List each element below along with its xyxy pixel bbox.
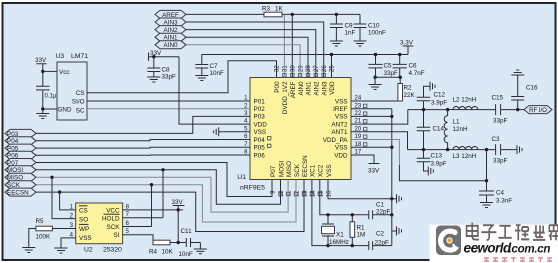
svg-text:VSS: VSS <box>79 235 92 242</box>
ground sideways at C3 <box>517 145 522 154</box>
svg-text:AIN3: AIN3 <box>321 81 328 95</box>
inductor L2 12nH <box>453 97 478 110</box>
svg-text:25: 25 <box>330 65 336 72</box>
svg-text:MISO: MISO <box>286 161 293 177</box>
wire U2 VSS to ground <box>61 238 76 248</box>
power 33V at pin17 <box>368 164 380 175</box>
svg-text:U3: U3 <box>56 53 65 60</box>
node pin22 junction <box>390 115 393 118</box>
svg-text:DVDD_1V2: DVDD_1V2 <box>282 81 289 114</box>
svg-text:Vcc: Vcc <box>59 69 70 76</box>
svg-text:C7: C7 <box>210 63 219 70</box>
svg-text:12nH: 12nH <box>453 126 469 133</box>
node C4 junction <box>485 179 488 182</box>
wire R5 left to ground <box>29 229 36 248</box>
port flag AIN2 <box>155 26 186 34</box>
node VSS bus junction <box>390 197 393 200</box>
svg-text:VDD_PA: VDD_PA <box>323 137 349 144</box>
node R1 bottom junction <box>351 244 354 247</box>
svg-text:RF I/O: RF I/O <box>529 108 547 114</box>
node ground line left <box>373 76 376 79</box>
wire U3 SC to U1 pin2 <box>87 108 250 110</box>
wire R2 top to ground line <box>399 77 401 83</box>
U1 right pin names VSS IREF VSS ANT2 ANT1 VDD_PA VSS VDD <box>323 98 349 159</box>
svg-text:10nF: 10nF <box>179 251 194 258</box>
ground below U3 cap <box>36 109 49 119</box>
svg-text:AIN2: AIN2 <box>314 81 321 95</box>
svg-text:VSS: VSS <box>326 164 333 177</box>
wire P05 to U1 pin7 <box>36 146 250 149</box>
svg-text:VDD: VDD <box>254 121 268 128</box>
svg-text:30: 30 <box>291 65 297 72</box>
wire U1 pin21 ANT2 up to RF line <box>351 110 408 125</box>
ground below node <box>369 77 382 89</box>
IC U3 LM71 body <box>56 53 89 120</box>
svg-text:33V: 33V <box>150 50 162 57</box>
wire P07 to U1 pin9 <box>36 163 272 197</box>
svg-text:27: 27 <box>314 65 320 72</box>
svg-text:33V: 33V <box>368 168 380 175</box>
wire U1 pin16 VSS to ground <box>328 180 392 199</box>
svg-text:VSS: VSS <box>335 145 348 152</box>
resistor R4 10K <box>149 240 174 255</box>
svg-text:WP: WP <box>79 226 89 233</box>
svg-text:R2: R2 <box>404 85 413 92</box>
wire SCK branch to U2 SCK <box>123 185 152 227</box>
node MOSI branch junction <box>161 168 164 171</box>
node C16 RF junction <box>516 108 519 111</box>
node R1 top junction <box>351 213 354 216</box>
wire P03 to U1 pin3 <box>36 116 250 133</box>
svg-text:10K: 10K <box>162 249 174 256</box>
crystal X1 16MHz <box>322 215 349 246</box>
wire U3 CS to P00 pin32 <box>87 61 277 93</box>
svg-text:16MHz: 16MHz <box>329 239 349 246</box>
wire vertical bus x391.8 <box>391 109 393 246</box>
watermark red tagline <box>484 258 552 262</box>
wire R5 to U2 WP <box>52 228 75 230</box>
node crystal top junction <box>326 213 329 216</box>
capacitor C9 1nF <box>330 14 356 41</box>
wire P06 to U1 pin8 <box>36 154 250 156</box>
power 33V at U2 VCC <box>172 199 185 210</box>
wire pin31 DVDD_1V2 drop <box>283 14 285 77</box>
wire U1 pin5 VSS stub <box>219 131 250 133</box>
svg-text:22pF: 22pF <box>376 209 391 216</box>
node ground line right <box>399 76 402 79</box>
wire AIN3 to pin26 <box>186 22 324 78</box>
watermark logo block <box>436 226 461 256</box>
svg-text:C3: C3 <box>492 136 501 143</box>
ground below C10 <box>354 41 367 46</box>
ground below C4 <box>480 203 493 208</box>
power 3.3V symbol <box>400 40 414 55</box>
node C8 junction <box>152 55 155 58</box>
port flag MISO <box>5 173 36 181</box>
wire U1 pin19 VDD_PA feed <box>351 140 399 167</box>
inductor L3 12nH <box>453 147 478 160</box>
node U3 GND junction <box>41 107 44 110</box>
ground sideways at VSS line <box>392 194 402 203</box>
resistor R1 1M <box>350 215 365 246</box>
svg-text:C4: C4 <box>496 190 505 197</box>
svg-text:R4: R4 <box>149 249 158 256</box>
svg-text:C5: C5 <box>384 62 393 69</box>
svg-text:VSS: VSS <box>254 129 267 136</box>
port flag AIN0 <box>155 41 186 49</box>
svg-text:AIN0: AIN0 <box>298 81 305 95</box>
U1 bottom pin names P07 MOSI MISO SCK EECSN XC1 XC2 VSS (rotated) <box>270 155 333 177</box>
node MISO branch junction <box>50 176 53 179</box>
wire EECSN to U1 pin13 <box>36 180 304 232</box>
node SCK branch junction <box>150 183 153 186</box>
capacitor C12 3.9pF <box>417 86 448 109</box>
node VDD_PA feed junction <box>485 148 488 151</box>
wire pin25 VDD drop <box>331 55 333 78</box>
svg-text:VSS: VSS <box>335 114 348 121</box>
port flag SCK <box>5 181 36 189</box>
svg-text:1K: 1K <box>275 6 284 13</box>
svg-text:3.9pF: 3.9pF <box>431 100 447 107</box>
svg-text:SI/O: SI/O <box>72 98 85 105</box>
svg-text:R3: R3 <box>262 6 271 13</box>
svg-text:P07: P07 <box>270 165 277 177</box>
U1 right pin numbers 24-17 with pad squares <box>355 96 367 156</box>
svg-text:C11: C11 <box>181 228 193 235</box>
svg-text:3.3nF: 3.3nF <box>496 198 512 205</box>
port flag AREF <box>155 10 186 18</box>
svg-text:25320: 25320 <box>103 247 122 254</box>
svg-text:SC: SC <box>76 108 85 115</box>
ground sideways at bus y231 <box>392 227 402 236</box>
wire U3 Vcc <box>43 70 57 72</box>
svg-text:P01: P01 <box>254 98 266 105</box>
wire U1 pin20 ANT1 down to RF bottom line <box>351 132 408 150</box>
svg-text:100K: 100K <box>36 234 52 241</box>
resistor R2 22K <box>398 84 416 102</box>
port flag P03 <box>5 129 36 137</box>
svg-text:SCK: SCK <box>107 224 121 231</box>
svg-text:.com.cn: .com.cn <box>509 243 551 256</box>
svg-text:C10: C10 <box>368 23 380 30</box>
port flag P06 <box>5 151 36 159</box>
wire SCK to U1 pin12 <box>36 180 296 223</box>
node VDD pin25 junction <box>330 53 333 56</box>
svg-text:AIN0: AIN0 <box>164 42 178 49</box>
capacitor C5 33pF <box>368 55 398 78</box>
capacitor C16 <box>511 75 538 110</box>
wire AIN2 to pin27 <box>186 30 316 78</box>
wire U1 pin18 VSS stub <box>351 146 392 148</box>
node C9 junction <box>335 13 338 16</box>
svg-text:33pF: 33pF <box>384 70 399 77</box>
svg-text:GND: GND <box>58 106 72 113</box>
capacitor C4 3.3nF <box>479 181 512 205</box>
watermark background <box>430 225 558 263</box>
svg-text:AIN1: AIN1 <box>306 81 313 95</box>
node L1 bottom junction <box>446 148 449 151</box>
svg-text:C8: C8 <box>162 67 171 74</box>
power 33V rail at C8 <box>149 50 180 61</box>
wire U2 VCC 33V <box>123 209 183 211</box>
svg-text:P06: P06 <box>254 152 266 159</box>
svg-text:P03: P03 <box>254 114 266 121</box>
node AREF pin30 junction <box>291 13 294 16</box>
svg-text:nRF9E5: nRF9E5 <box>240 185 265 192</box>
capacitor C2 22pF <box>369 231 392 251</box>
svg-text:22K: 22K <box>404 92 416 99</box>
node C5 rail junction <box>374 53 377 56</box>
svg-text:33pF: 33pF <box>493 158 508 165</box>
svg-text:VSS: VSS <box>335 98 348 105</box>
ground sideways at C12 <box>430 82 435 91</box>
svg-text:26: 26 <box>322 65 328 72</box>
capacitor 0.1u at U3 <box>36 71 57 109</box>
wire U2 SI to R4 <box>123 235 153 243</box>
wire AREF to R3 <box>186 13 264 15</box>
svg-text:EECSN: EECSN <box>7 190 29 197</box>
wire U1 pin17 VDD to 33V <box>351 155 374 164</box>
resistor R3 1K <box>262 6 284 17</box>
wire U1 pin23 IREF to vertical bus <box>351 108 392 110</box>
capacitor C13 3.9pF <box>417 150 447 171</box>
ground up at C16 <box>511 70 524 75</box>
svg-text:ee: ee <box>464 241 479 256</box>
wire U3 SI/O to U1 pin1 <box>87 100 250 102</box>
svg-text:IREF: IREF <box>333 106 347 113</box>
capacitor C6 4.7nF <box>393 55 425 78</box>
svg-text:U2: U2 <box>84 247 93 254</box>
wire ground line above R2 <box>375 76 400 78</box>
ground below C8 <box>147 77 160 82</box>
capacitor C15 33pF <box>492 95 525 125</box>
svg-text:C9: C9 <box>345 23 354 30</box>
node C12 C14 junction <box>422 108 425 111</box>
ground sideways at C13 <box>428 167 433 176</box>
svg-text:29: 29 <box>298 65 304 72</box>
op-chip U1 nRF9E5 body <box>237 78 351 192</box>
wire P04 to U1 pin6 <box>36 140 250 141</box>
port flag P05 <box>5 144 36 152</box>
capacitor C11 10nF <box>179 228 201 258</box>
svg-text:33pF: 33pF <box>162 74 177 81</box>
capacitor C3 33pF <box>492 136 518 165</box>
watermark CJK title strokes <box>467 223 558 240</box>
svg-text:SI: SI <box>114 232 120 239</box>
svg-text:0.1μ: 0.1μ <box>45 94 57 100</box>
watermark eeworld text <box>464 241 551 256</box>
U1 bottom pin numbers 9-16 (rotated) with pad squares <box>271 190 333 197</box>
svg-text:C16: C16 <box>526 85 538 92</box>
svg-text:HOLD: HOLD <box>102 215 120 222</box>
wire pin30 AREF drop <box>291 14 293 77</box>
svg-text:R1: R1 <box>357 225 366 232</box>
svg-text:P00: P00 <box>274 81 281 93</box>
svg-text:XC1: XC1 <box>310 164 317 177</box>
node pin18 junction <box>390 146 393 149</box>
capacitor C14 between RF lines <box>417 110 445 150</box>
node L1 top junction <box>446 108 449 111</box>
svg-text:32: 32 <box>275 65 281 72</box>
svg-text:C13: C13 <box>431 153 443 160</box>
svg-text:100nF: 100nF <box>368 30 386 37</box>
svg-text:EECSN: EECSN <box>302 155 309 177</box>
svg-text:U1: U1 <box>237 174 246 181</box>
wire AIN1 to pin28 <box>186 37 308 77</box>
ground below U2 VSS <box>55 248 68 253</box>
wire U1 pin22 VSS stub <box>351 115 392 117</box>
wire MOSI to U1 pin10 <box>36 170 281 205</box>
svg-text:31: 31 <box>283 65 289 72</box>
wire R4 to C11 node <box>170 242 186 244</box>
capacitor C8 33pF <box>147 57 176 81</box>
svg-text:28: 28 <box>306 65 312 72</box>
wire VCC pullup vertical <box>177 210 179 243</box>
svg-text:SCK: SCK <box>294 163 301 177</box>
svg-text:SO: SO <box>79 217 88 224</box>
node C6 rail junction <box>398 53 401 56</box>
capacitor C1 22pF <box>369 202 392 220</box>
svg-text:L2 12nH: L2 12nH <box>453 97 477 104</box>
svg-text:33pF: 33pF <box>493 118 508 125</box>
ground right of C11 <box>194 243 207 254</box>
svg-text:ANT2: ANT2 <box>331 121 348 128</box>
svg-text:ANT1: ANT1 <box>331 129 348 136</box>
wire RF top line <box>408 109 496 111</box>
IC U2 25320 EEPROM body <box>76 203 123 254</box>
port flag P07 <box>5 159 36 167</box>
svg-text:3.9pF: 3.9pF <box>431 161 447 168</box>
wire U1 pin14 XC1 to crystal bottom line <box>312 180 369 246</box>
U1 top pin names P00 DVDD_1V2 AREF AIN0 AIN1 AIN2 AIN3 VDD (rotated) <box>274 81 336 114</box>
svg-text:CS: CS <box>76 90 85 97</box>
node R4 VCC junction <box>177 241 180 244</box>
port flag P04 <box>5 137 36 145</box>
svg-text:C6: C6 <box>409 62 418 69</box>
svg-text:R5: R5 <box>36 218 45 225</box>
node C13 junction <box>422 148 425 151</box>
svg-text:C12: C12 <box>434 92 446 99</box>
U1 left pin names P01 P02 P03 VDD VSS P04 P05 P06 <box>254 98 271 159</box>
wire AIN0 to pin29 <box>186 45 300 78</box>
svg-text:L1: L1 <box>453 119 461 126</box>
ground below R5 <box>22 248 35 253</box>
resistor R5 100K <box>36 218 53 241</box>
svg-text:3.3V: 3.3V <box>400 40 414 47</box>
svg-text:C14: C14 <box>433 126 445 133</box>
svg-text:VDD: VDD <box>329 81 336 95</box>
svg-text:4.7nF: 4.7nF <box>409 70 425 77</box>
svg-text:C1: C1 <box>376 202 385 209</box>
svg-text:16: 16 <box>327 190 333 197</box>
capacitor C10 100nF <box>354 14 387 41</box>
port flag AIN3 <box>155 18 186 26</box>
port flag MOSI <box>5 166 36 174</box>
3.3V rail wire to C7 and C5 C6 <box>202 54 408 56</box>
svg-text:22pF: 22pF <box>375 240 390 247</box>
svg-text:10nF: 10nF <box>210 70 225 77</box>
svg-text:LM71: LM71 <box>71 53 88 60</box>
node U3 Vcc junction <box>41 70 44 73</box>
node EECSN branch junction <box>58 190 61 193</box>
wire 33V to U1 pin4 VDD <box>179 57 250 124</box>
wire U3 GND <box>43 108 57 110</box>
capacitor C7 10nF <box>195 55 224 78</box>
svg-text:33V: 33V <box>172 199 184 206</box>
port flag AIN1 <box>155 33 186 41</box>
svg-text:P02: P02 <box>254 106 266 113</box>
wire RF bottom line <box>408 149 496 151</box>
svg-text:X1: X1 <box>336 232 344 239</box>
svg-text:XC2: XC2 <box>318 164 325 177</box>
power 33V supply at U3 <box>35 57 47 71</box>
svg-text:1nF: 1nF <box>345 30 356 37</box>
port flag EECSN <box>5 188 36 196</box>
svg-text:C2: C2 <box>376 231 385 238</box>
svg-text:CS: CS <box>79 207 88 214</box>
inductor L1 12nH vertical <box>444 110 468 150</box>
svg-text:1M: 1M <box>357 232 366 239</box>
U1 top pin numbers 32-25 (rotated) with pad squares <box>275 65 336 77</box>
svg-text:AREF: AREF <box>290 81 297 98</box>
wire MISO to U1 pin11 <box>36 177 288 212</box>
node crystal bottom junction <box>326 244 329 247</box>
ground sideways at U1 pin5 <box>214 127 219 136</box>
svg-text:C15: C15 <box>492 95 504 102</box>
svg-text:MOSI: MOSI <box>278 161 285 177</box>
svg-text:VDD: VDD <box>334 152 348 159</box>
svg-text:33V: 33V <box>35 57 47 64</box>
wire EECSN branch to U2 CS <box>60 192 76 210</box>
svg-text:P04: P04 <box>254 137 266 144</box>
ground below C7 <box>195 76 208 81</box>
wire MOSI branch to U2 HOLD <box>123 170 163 218</box>
svg-text:world: world <box>478 241 513 256</box>
svg-text:P05: P05 <box>254 145 266 152</box>
U1 left pin numbers 1-8 <box>244 96 248 156</box>
ground below C9 <box>330 41 343 46</box>
wire U1 pin15 XC2 to crystal top line <box>320 180 369 215</box>
svg-text:VCC: VCC <box>106 207 120 214</box>
port flag RF I/O <box>524 106 552 114</box>
svg-text:L3 12nH: L3 12nH <box>453 153 477 160</box>
U2 pin numbers <box>70 204 130 238</box>
node U2 VCC junction <box>177 208 180 211</box>
wire MISO branch to U2 SO <box>52 177 76 218</box>
wire U1 pin24 to R2 <box>351 100 400 102</box>
node C1 bus junction <box>390 213 393 216</box>
wire R3 to C9 C10 DVDD node <box>282 13 360 15</box>
